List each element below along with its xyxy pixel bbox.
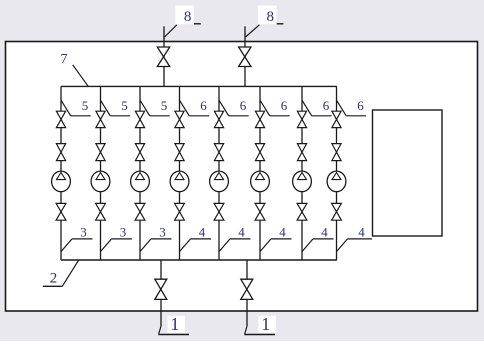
svg-text:4: 4 bbox=[279, 224, 286, 239]
svg-text:5: 5 bbox=[82, 98, 89, 113]
svg-text:6: 6 bbox=[323, 98, 330, 113]
svg-text:7: 7 bbox=[61, 52, 68, 67]
svg-text:5: 5 bbox=[121, 98, 128, 113]
svg-text:3: 3 bbox=[80, 224, 87, 239]
svg-text:5: 5 bbox=[161, 98, 168, 113]
svg-text:1: 1 bbox=[170, 314, 179, 334]
svg-text:4: 4 bbox=[321, 224, 328, 239]
svg-text:8: 8 bbox=[266, 9, 274, 25]
svg-text:4: 4 bbox=[199, 224, 206, 239]
svg-text:3: 3 bbox=[159, 224, 166, 239]
svg-text:8: 8 bbox=[184, 9, 192, 25]
svg-text:6: 6 bbox=[200, 98, 207, 113]
svg-text:4: 4 bbox=[358, 224, 365, 239]
svg-text:3: 3 bbox=[120, 224, 127, 239]
svg-text:6: 6 bbox=[240, 98, 247, 113]
svg-text:6: 6 bbox=[281, 98, 288, 113]
svg-text:1: 1 bbox=[261, 314, 270, 334]
svg-text:2: 2 bbox=[50, 270, 58, 286]
svg-text:6: 6 bbox=[357, 98, 364, 113]
svg-text:4: 4 bbox=[238, 224, 245, 239]
